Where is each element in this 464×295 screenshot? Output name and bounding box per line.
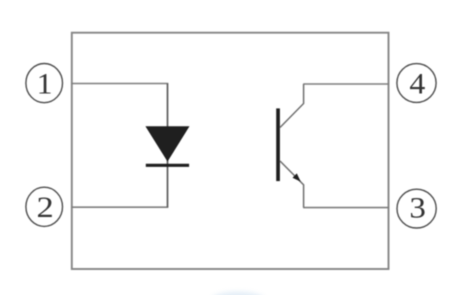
- svg-text:1: 1: [37, 67, 53, 100]
- svg-text:2: 2: [37, 190, 54, 223]
- svg-text:4: 4: [409, 67, 425, 100]
- svg-text:3: 3: [409, 191, 426, 224]
